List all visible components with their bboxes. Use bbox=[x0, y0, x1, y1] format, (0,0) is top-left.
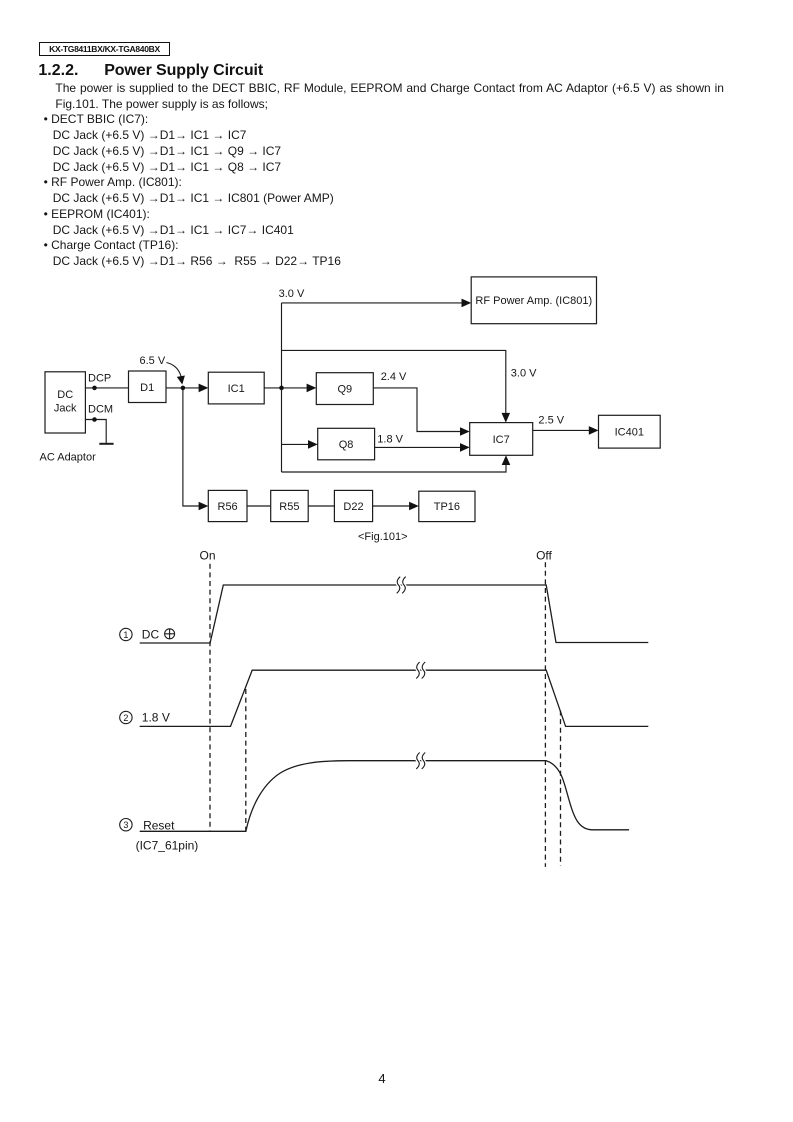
break marks (white halo) bbox=[397, 577, 426, 769]
circled 2 bbox=[120, 711, 132, 723]
arrowhead into IC7 from Q8 path bbox=[460, 443, 470, 452]
wire bottom bus up into IC7 bbox=[282, 465, 507, 473]
dashed line 2 (reset start) bbox=[245, 689, 247, 831]
D22 box bbox=[334, 490, 372, 521]
waveform 2: 1.8V bbox=[140, 670, 649, 726]
dashed line Off bbox=[544, 562, 546, 867]
junction dot bus at IC1 output bbox=[279, 386, 284, 391]
Q8 box bbox=[318, 428, 375, 460]
wire junction D1 down to R56 row bbox=[183, 388, 200, 506]
model number header box bbox=[39, 42, 170, 56]
svg-text:IC401: IC401 bbox=[615, 427, 644, 439]
svg-text:Q8: Q8 bbox=[339, 439, 354, 451]
svg-text:(IC7_61pin): (IC7_61pin) bbox=[136, 839, 199, 853]
wire DCM from DC Jack to ground bbox=[85, 420, 106, 444]
wire Q9 output 2.4V to IC7 bbox=[373, 388, 461, 432]
arrowhead into TP16 bbox=[409, 502, 419, 511]
wire bus to Q8 bbox=[282, 443, 309, 445]
arrowhead into R56 bbox=[199, 502, 209, 511]
svg-text:Jack: Jack bbox=[54, 403, 77, 415]
svg-text:IC7: IC7 bbox=[493, 434, 510, 446]
svg-text:On: On bbox=[200, 549, 216, 563]
arrowhead into IC7 bottom (up) bbox=[502, 455, 511, 465]
junction dot DCP bbox=[92, 386, 97, 391]
svg-text:3: 3 bbox=[123, 820, 128, 830]
svg-text:RF Power Amp. (IC801): RF Power Amp. (IC801) bbox=[475, 295, 592, 307]
svg-text:DCP: DCP bbox=[88, 372, 111, 384]
waveform 1: DC bbox=[140, 585, 649, 643]
wire DCP: DC Jack to D1 bbox=[85, 387, 128, 389]
page number bbox=[366, 1071, 398, 1086]
junction dot DCM bbox=[92, 417, 97, 422]
section heading bbox=[38, 63, 78, 79]
TP16 box bbox=[419, 491, 475, 521]
arrowhead into RF Power Amp bbox=[462, 299, 472, 308]
svg-text:DC: DC bbox=[57, 389, 73, 401]
wire bus to RF Power Amp bbox=[282, 302, 463, 304]
svg-text:TP16: TP16 bbox=[434, 501, 460, 513]
curved arrow 6.5V pointer bbox=[167, 363, 182, 380]
arrowhead into IC7 top (3.0V) bbox=[502, 413, 511, 423]
svg-text:Reset: Reset bbox=[143, 819, 175, 833]
R55 box bbox=[271, 490, 309, 521]
wire R55 to D22 bbox=[308, 505, 334, 507]
svg-text:2.5 V: 2.5 V bbox=[538, 415, 564, 427]
svg-text:R56: R56 bbox=[218, 501, 238, 513]
wire D1 to IC1 bbox=[166, 387, 200, 389]
svg-text:AC Adaptor: AC Adaptor bbox=[40, 451, 97, 463]
wire bus to 3.0V drop into IC7 top bbox=[282, 350, 506, 414]
arrowhead of 6.5V curved pointer bbox=[177, 376, 185, 385]
vertical bus bbox=[281, 303, 283, 472]
svg-text:R55: R55 bbox=[279, 501, 299, 513]
IC7 box bbox=[470, 423, 533, 456]
circled 3 bbox=[120, 819, 132, 831]
svg-text:Off: Off bbox=[536, 549, 552, 563]
break on waveform 1 bbox=[397, 577, 401, 594]
waveform 3: Reset bbox=[140, 761, 629, 832]
break on waveform 3 bbox=[416, 753, 420, 770]
ground bar bbox=[99, 443, 113, 445]
wire IC1 to Q9 through bus bbox=[264, 387, 307, 389]
wire Q8 output 1.8V to IC7 bbox=[375, 446, 461, 448]
junction dot after D1 bbox=[181, 386, 186, 391]
arrowhead into IC1 bbox=[199, 384, 209, 393]
svg-text:3.0 V: 3.0 V bbox=[511, 368, 537, 380]
svg-text:D22: D22 bbox=[343, 501, 363, 513]
svg-text:2.4 V: 2.4 V bbox=[381, 371, 407, 383]
DC Jack box bbox=[45, 372, 85, 433]
svg-text:1.8 V: 1.8 V bbox=[142, 711, 170, 725]
svg-text:IC1: IC1 bbox=[228, 383, 245, 395]
wire IC7 to IC401 bbox=[533, 429, 590, 431]
arrowhead into Q8 bbox=[308, 440, 318, 449]
svg-text:6.5 V: 6.5 V bbox=[140, 355, 166, 367]
break on waveform 2 bbox=[416, 662, 420, 679]
Q9 box bbox=[316, 373, 373, 405]
circled 1 bbox=[120, 628, 132, 640]
body text bbox=[0, 81, 724, 270]
svg-text:<Fig.101>: <Fig.101> bbox=[358, 531, 408, 543]
IC1 box bbox=[208, 372, 264, 404]
svg-text:1.8 V: 1.8 V bbox=[377, 434, 403, 446]
svg-text:Q9: Q9 bbox=[337, 384, 352, 396]
svg-text:2: 2 bbox=[123, 713, 128, 723]
svg-text:3.0 V: 3.0 V bbox=[279, 288, 305, 300]
arrowhead into Q9 bbox=[307, 384, 317, 393]
R56 box bbox=[208, 490, 247, 521]
svg-text:DC: DC bbox=[142, 628, 160, 642]
timing diagram bbox=[210, 562, 561, 867]
DC plus symbol bbox=[165, 629, 175, 639]
IC401 box bbox=[599, 415, 661, 448]
dashed line On bbox=[209, 564, 211, 831]
arrowhead into IC7 from Q9 path bbox=[460, 427, 470, 436]
dashed line 4 bbox=[560, 711, 562, 866]
wire R56 to R55 bbox=[247, 505, 271, 507]
svg-text:DCM: DCM bbox=[88, 403, 113, 415]
svg-text:1: 1 bbox=[123, 630, 128, 640]
D1 box bbox=[129, 371, 167, 403]
arrowhead into IC401 bbox=[589, 426, 599, 435]
svg-text:D1: D1 bbox=[140, 382, 154, 394]
wire D22 to TP16 bbox=[373, 505, 410, 507]
RF Power Amp box bbox=[471, 277, 596, 324]
